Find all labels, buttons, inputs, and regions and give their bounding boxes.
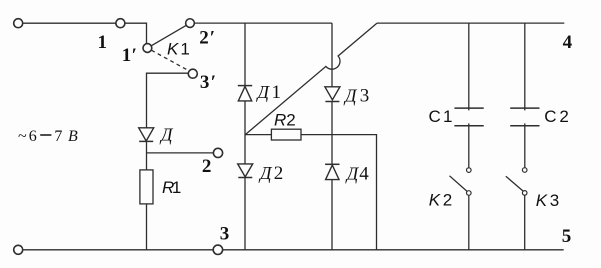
- diode D4 cathode bar: [325, 163, 339, 165]
- wire C2 branch top: [524, 23, 526, 110]
- wire top-right rail: [377, 22, 564, 24]
- diode D cathode bar: [139, 140, 153, 142]
- wire from contact 1 to corner and down to 1': [125, 23, 146, 44]
- wire top of D1 branch: [244, 23, 246, 86]
- svg-text:4: 4: [563, 32, 573, 53]
- capacitor C1 bottom plate: [454, 125, 483, 127]
- svg-text:K1: K1: [167, 39, 190, 58]
- svg-text:Д2: Д2: [258, 163, 283, 184]
- wire R2 left lead: [245, 134, 271, 136]
- diode D2 triangle: [238, 164, 253, 177]
- diode D3 cathode bar: [325, 101, 339, 103]
- switch K2 arm: [450, 176, 468, 192]
- switch K3 arm: [506, 176, 523, 191]
- capacitor C2 top plate: [510, 107, 539, 109]
- switch K1 arm 1'-2': [151, 25, 186, 46]
- svg-text:K2: K2: [429, 190, 452, 209]
- svg-text:Д3: Д3: [343, 85, 369, 106]
- svg-text:3′: 3′: [200, 72, 216, 93]
- wire D4 to bottom rail: [331, 180, 333, 250]
- wire D1 to R2 junction: [244, 101, 246, 135]
- resistor R1: [140, 170, 153, 204]
- svg-text:5: 5: [562, 226, 572, 247]
- svg-text:3: 3: [220, 224, 230, 245]
- svg-text:Д4: Д4: [345, 164, 370, 185]
- diode D1 cathode bar: [238, 85, 252, 87]
- svg-text:1: 1: [98, 32, 108, 53]
- wire from 2' to top of diode branch D3: [194, 22, 332, 24]
- switch K1 dashed link 1'-3': [151, 50, 189, 71]
- wire from 3' left and down to diode D: [147, 73, 189, 127]
- terminal bottom-left: [14, 245, 23, 254]
- bottom rail wire: [22, 249, 563, 251]
- diode D3 triangle: [325, 87, 340, 100]
- svg-text:2: 2: [202, 156, 212, 177]
- switch K3 upper contact: [522, 168, 527, 173]
- contact 2' of K1: [186, 19, 195, 28]
- contact 1' of K1: [143, 44, 152, 53]
- svg-text:2′: 2′: [199, 27, 215, 48]
- wire D3 branch top: [331, 23, 333, 87]
- svg-text:C1: C1: [429, 107, 453, 126]
- svg-text:Д1: Д1: [256, 82, 282, 103]
- resistor R2: [271, 129, 301, 140]
- wire top-left horizontal: [23, 22, 116, 24]
- diode D1 triangle: [238, 86, 251, 101]
- wire D to R1: [146, 141, 148, 170]
- node 2 terminal: [213, 148, 222, 157]
- wire C1 branch top: [468, 23, 470, 110]
- capacitor C1 top plate: [454, 107, 483, 109]
- wire D3 to D4: [331, 102, 333, 165]
- node 3 terminal: [213, 245, 222, 254]
- wire C1 to K2: [468, 123, 470, 167]
- svg-text:C2: C2: [544, 107, 569, 126]
- svg-text:R2: R2: [274, 111, 296, 130]
- wire D2 to bottom rail: [244, 178, 246, 250]
- diode D triangle: [139, 128, 154, 141]
- switch K3 lower contact: [522, 191, 527, 196]
- diode D4 triangle: [326, 165, 339, 180]
- wire stub to node 2: [147, 152, 214, 154]
- contact 1: [116, 19, 125, 28]
- wire R1 to bottom rail: [146, 204, 148, 250]
- diode D2 cathode bar: [238, 177, 252, 179]
- terminal top-left: [14, 19, 23, 28]
- svg-text:R1: R1: [162, 178, 181, 197]
- wire K2 to bottom rail: [468, 195, 470, 250]
- wire diagonal from R2 junction to node 4 rail with hop: [245, 23, 377, 135]
- wire C2 to K3: [524, 123, 526, 167]
- svg-text:~67В: ~67В: [18, 128, 78, 145]
- svg-text:K3: K3: [536, 191, 559, 210]
- wire K3 to bottom rail: [524, 195, 526, 250]
- switch K2 lower contact: [467, 191, 472, 196]
- switch K2 upper contact: [467, 168, 472, 173]
- wire junction to D2: [244, 135, 246, 164]
- capacitor C2 bottom plate: [510, 125, 539, 127]
- contact 3' of K1: [188, 69, 197, 78]
- svg-text:1′: 1′: [122, 45, 137, 66]
- svg-text:Д: Д: [159, 125, 174, 145]
- wire R2 right lead to corner and down: [301, 135, 377, 250]
